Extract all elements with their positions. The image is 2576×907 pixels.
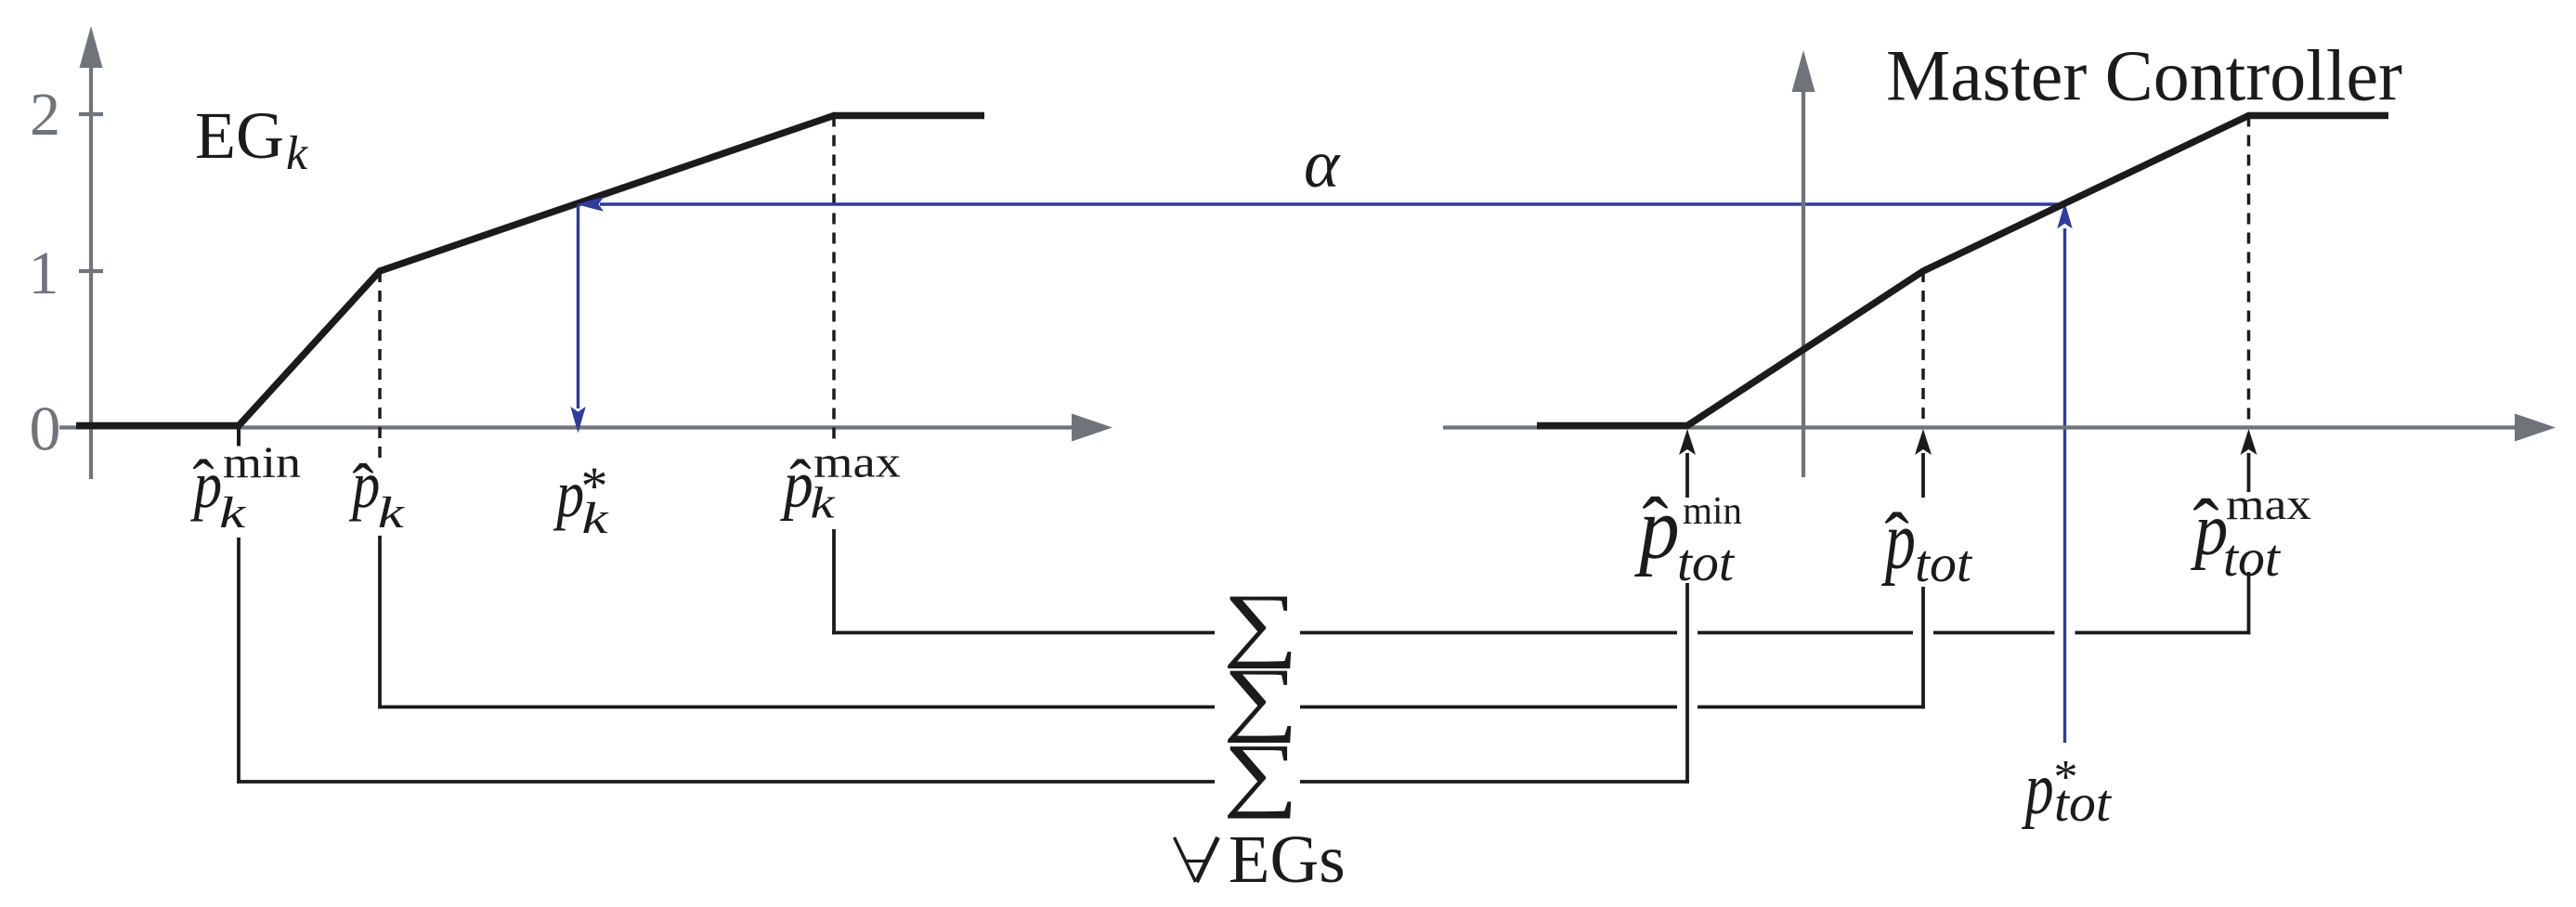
svg-text:2: 2 [30,81,60,149]
svg-text:max: max [2226,480,2311,529]
line 3 (bottom, p_k^min to p_tot^min) [237,780,1689,784]
svg-text:tot: tot [2223,529,2281,588]
svg-text:ˆ: ˆ [352,452,373,524]
dashed at p_tot [1921,271,1925,424]
svg-text:k: k [286,127,308,180]
y-axis right [1792,50,1815,477]
tick below curve start [237,427,241,447]
svg-text:ˆ: ˆ [1642,482,1668,569]
svg-text:EGs: EGs [1229,822,1346,897]
svg-text:Master Controller: Master Controller [1886,35,2402,116]
x-axis [59,414,1112,442]
up arrow at p_tot [1915,429,1932,498]
axis tick labels [29,81,61,464]
svg-text:α: α [1304,126,1341,201]
dashed at p_tot max [2247,116,2251,425]
svg-text:p: p [2022,748,2054,830]
black curve left [76,116,984,426]
label p_k^min [189,438,301,538]
x-axis right [1443,414,2556,442]
dashed line at p_k [378,271,382,464]
svg-text:ˆ: ˆ [2192,484,2218,571]
forall EGs [1175,837,1218,882]
y-axis [79,26,103,479]
svg-text:ˆ: ˆ [192,448,214,520]
up arrow at p_tot_max [2241,429,2257,492]
label p_tot^min [1634,479,1742,592]
line 2 (middle, p_k to p_tot) [378,706,1925,709]
up arrow at p_tot_min [1679,429,1696,498]
svg-text:0: 0 [30,394,61,464]
svg-text:1: 1 [29,240,59,307]
svg-text:EG: EG [195,98,284,173]
label p_tot^max [2191,480,2311,588]
label p*_k [553,456,610,543]
svg-text:tot: tot [2054,774,2112,833]
label p*_tot [2022,748,2112,833]
dashed line at p_k max [832,116,836,444]
svg-text:min: min [1683,490,1742,533]
svg-text:min: min [223,438,301,487]
svg-text:k: k [378,488,406,538]
vertical connectors left [239,529,834,784]
EG_k title [195,98,308,180]
blue horizontal line [570,197,2072,743]
label p_k^max [779,438,901,528]
svg-text:k: k [811,479,837,528]
vertical connectors right [1687,572,2249,784]
svg-text:∑: ∑ [1223,728,1298,819]
svg-text:p: p [553,457,584,531]
svg-text:tot: tot [1915,535,1972,593]
black curve right [1537,116,2388,426]
svg-text:k: k [582,494,610,543]
label p_tot [1881,495,1973,593]
svg-text:ˆ: ˆ [1884,499,1909,581]
svg-text:ˆ: ˆ [789,448,811,520]
svg-text:k: k [219,488,247,538]
label p_k [348,447,406,538]
line 1 (top, p_k^max to p_tot^max) [832,631,2250,635]
